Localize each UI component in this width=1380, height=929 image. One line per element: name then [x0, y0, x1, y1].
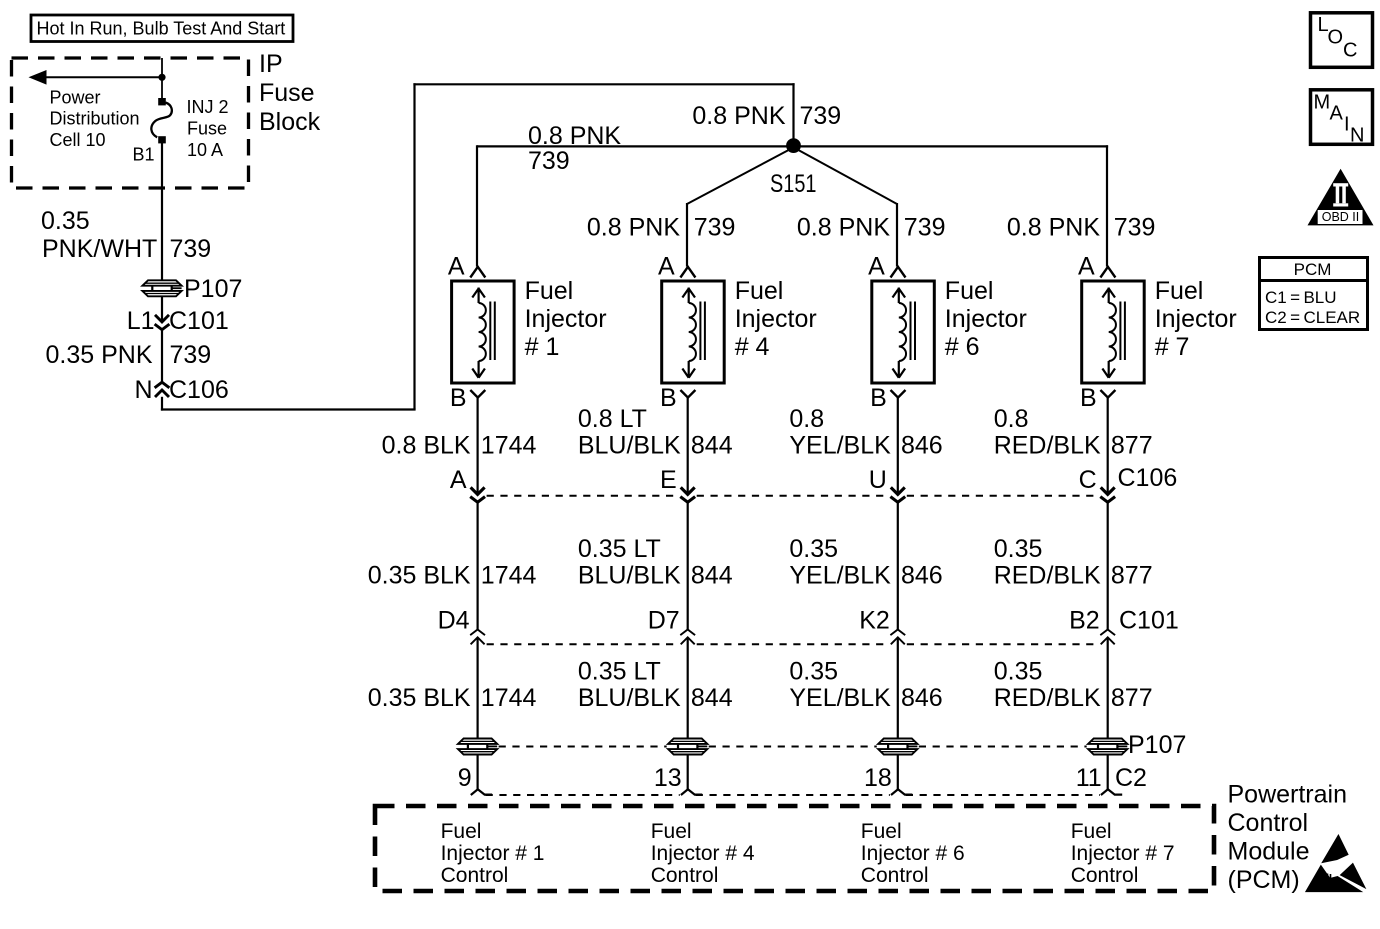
wire P107 to C101 (left): [161, 296, 163, 322]
wire C106 to C101 col 1: [477, 502, 479, 630]
terminal A tent injector 4: [680, 267, 695, 278]
svg-text:Control: Control: [1228, 809, 1309, 837]
svg-text:0.8: 0.8: [789, 405, 824, 433]
svg-text:RED/BLK: RED/BLK: [994, 432, 1101, 460]
wire label 0.35 BLK 1744 (row 2 col 1): [368, 562, 537, 590]
svg-text:YEL/BLK: YEL/BLK: [789, 684, 891, 712]
connector crossing C106 col 1: [470, 487, 485, 502]
connector crossing C106 col 3: [890, 487, 905, 502]
label C106 (row): [1118, 464, 1178, 492]
svg-text:Fuse: Fuse: [187, 118, 227, 138]
wire injector 1 B to C106: [477, 398, 479, 495]
svg-text:739: 739: [170, 341, 212, 369]
pin label 18 (C2): [864, 764, 892, 792]
connector crossing C101 col 1: [470, 630, 485, 645]
svg-text:10 A: 10 A: [187, 140, 223, 160]
label P107 (left wire): [184, 275, 242, 303]
svg-text:B2: B2: [1069, 607, 1100, 635]
svg-text:OBD II: OBD II: [1322, 210, 1360, 224]
label 0.8 PNK 739 (injector 6 branch): [797, 214, 946, 242]
svg-text:M: M: [1314, 92, 1331, 114]
wire S151 horizontal left to injector 1: [477, 145, 794, 147]
label Powertrain Control Module (PCM): [1228, 781, 1348, 895]
LOC icon box: [1311, 13, 1373, 68]
svg-text:# 6: # 6: [945, 333, 980, 361]
wire injector 6 B to C106: [897, 398, 899, 495]
label Fuel Injector # 4 Control: [651, 820, 755, 887]
fuel injector #6 box: [872, 281, 935, 383]
svg-text:# 7: # 7: [1155, 333, 1190, 361]
svg-text:C2: C2: [1115, 764, 1147, 792]
svg-text:Power: Power: [50, 87, 101, 107]
pin label B2 (C101): [1069, 607, 1100, 635]
wire injector 7 B to C106: [1107, 398, 1109, 495]
svg-text:A: A: [658, 253, 675, 281]
label C2 (row): [1115, 764, 1147, 792]
svg-text:Injector: Injector: [735, 305, 817, 333]
connector P107 inline (left wire): [142, 280, 182, 297]
svg-text:BLU/BLK: BLU/BLK: [578, 684, 681, 712]
wire C106 to C101 col 4: [1107, 502, 1109, 630]
wire P107 to C2 col 3: [897, 754, 899, 790]
svg-text:Distribution: Distribution: [50, 109, 140, 129]
pin label A (C106): [450, 466, 467, 494]
svg-text:0.35: 0.35: [789, 535, 838, 563]
svg-text:844: 844: [691, 432, 733, 460]
svg-text:Fuel: Fuel: [1071, 820, 1112, 843]
svg-text:A: A: [448, 253, 465, 281]
svg-text:BLU/BLK: BLU/BLK: [578, 432, 681, 460]
svg-text:Fuel: Fuel: [651, 820, 692, 843]
svg-text:0.35: 0.35: [789, 658, 838, 686]
wire C101 to P107 col 1: [477, 637, 479, 739]
label P107 (row): [1128, 731, 1186, 759]
wire fuse block top stub: [161, 58, 163, 98]
wire between C101 and C106: [161, 329, 163, 382]
svg-text:846: 846: [901, 432, 943, 460]
svg-text:A: A: [1078, 253, 1095, 281]
pin label A injector 4: [658, 253, 675, 281]
connector crossing C106 on left wire: [155, 382, 170, 397]
svg-text:D7: D7: [648, 607, 680, 635]
label 0.8 PNK 739 (injector 7 branch): [1007, 214, 1156, 242]
pin label B injector 7: [1080, 384, 1097, 412]
wire label RED/BLK 877 (row 1 col 4): [994, 405, 1153, 460]
pin label B1: [132, 145, 154, 165]
OBD II triangle icon: [1308, 169, 1374, 226]
label 0.8 PNK 739 (injector 1 branch): [528, 122, 621, 175]
wire label 0.8 BLK 1744 (row 1 col 1): [382, 432, 537, 460]
connector C106 dashed line: [487, 495, 1099, 497]
svg-text:844: 844: [691, 684, 733, 712]
label 0.8 PNK 739 (injector 4 branch): [587, 214, 736, 242]
svg-text:739: 739: [904, 214, 946, 242]
svg-text:# 1: # 1: [525, 333, 560, 361]
svg-text:0.8: 0.8: [994, 405, 1029, 433]
Powertrain Control Module dashed box: [375, 806, 1214, 891]
pin label E (C106): [660, 466, 677, 494]
svg-text:0.35 PNK: 0.35 PNK: [45, 341, 152, 369]
svg-text:B: B: [870, 384, 887, 412]
svg-text:0.8 BLK: 0.8 BLK: [382, 432, 471, 460]
label Power Distribution Cell 10: [50, 87, 140, 150]
wire C106 to C101 col 3: [897, 502, 899, 630]
wire P107 to C2 col 4: [1107, 754, 1109, 790]
wire label BLU/BLK 844 (row 1 col 2): [578, 405, 733, 460]
svg-text:INJ 2: INJ 2: [187, 97, 229, 117]
svg-text:L1: L1: [127, 307, 155, 335]
pin label A injector 7: [1078, 253, 1095, 281]
fuel injector #7 box: [1082, 281, 1145, 383]
pin label D7 (C101): [648, 607, 680, 635]
wire injector 1 A drop: [476, 145, 478, 266]
svg-text:Injector: Injector: [945, 305, 1027, 333]
svg-text:C106: C106: [169, 376, 229, 404]
svg-text:Block: Block: [259, 108, 321, 136]
svg-text:0.35 BLK: 0.35 BLK: [368, 684, 471, 712]
svg-text:877: 877: [1111, 432, 1153, 460]
wire label RED/BLK 877 (row 2 col 4): [994, 535, 1153, 590]
svg-text:Injector # 7: Injector # 7: [1071, 842, 1175, 865]
svg-text:C: C: [1343, 40, 1357, 62]
svg-text:BLU/BLK: BLU/BLK: [578, 562, 681, 590]
svg-text:0.35 BLK: 0.35 BLK: [368, 562, 471, 590]
svg-text:0.8 PNK: 0.8 PNK: [692, 102, 785, 130]
connector P107 inline col 2: [668, 738, 708, 755]
svg-text:0.8 PNK: 0.8 PNK: [587, 214, 680, 242]
svg-text:739: 739: [800, 102, 842, 130]
wire label YEL/BLK 846 (row 2 col 3): [789, 535, 942, 590]
svg-text:A: A: [1330, 103, 1344, 125]
pin label B injector 4: [660, 384, 677, 412]
splice node S151: [786, 138, 801, 153]
fuel injector #4 box: [662, 281, 725, 383]
wire C106 to C101 col 2: [687, 502, 689, 630]
arrow to Power Distribution Cell 10: [29, 70, 163, 85]
svg-text:C2 = CLEAR: C2 = CLEAR: [1265, 308, 1360, 327]
wire S151 diagonal to injector 6: [797, 149, 898, 267]
svg-text:# 4: # 4: [735, 333, 770, 361]
svg-text:PNK/WHT: PNK/WHT: [42, 235, 157, 263]
svg-text:YEL/BLK: YEL/BLK: [789, 562, 891, 590]
svg-text:S151: S151: [770, 170, 817, 198]
terminal B tent injector 6: [891, 390, 906, 398]
svg-text:E: E: [660, 466, 677, 494]
svg-text:Fuel: Fuel: [1155, 277, 1204, 305]
terminal tent at C2 col 2: [681, 789, 702, 795]
svg-text:846: 846: [901, 684, 943, 712]
svg-text:0.35: 0.35: [994, 658, 1043, 686]
svg-text:0.35 LT: 0.35 LT: [578, 535, 661, 563]
terminal tent at C2 col 4: [1101, 789, 1122, 795]
fuel injector #7 coil symbol: [1102, 288, 1125, 378]
svg-text:Fuel: Fuel: [861, 820, 902, 843]
svg-text:O: O: [1328, 27, 1344, 49]
wire label BLU/BLK 844 (row 3 col 2): [578, 658, 733, 713]
svg-text:1744: 1744: [481, 432, 537, 460]
wire drop to S151: [792, 83, 794, 140]
wire top feed horizontal: [413, 83, 794, 85]
connector P107 inline col 1: [458, 738, 498, 755]
label S151: [770, 170, 817, 198]
terminal tent at C2 col 3: [891, 789, 912, 795]
connector crossing C106 col 2: [680, 487, 695, 502]
connector crossing C101 col 2: [680, 630, 695, 645]
svg-text:Fuel: Fuel: [441, 820, 482, 843]
header label box "Hot In Run, Bulb Test And Start": [31, 15, 293, 42]
svg-text:PCM: PCM: [1294, 260, 1332, 279]
label Fuel Injector # 1: [525, 277, 607, 361]
svg-text:1744: 1744: [481, 684, 537, 712]
label 0.35 PNK 739: [45, 341, 211, 369]
svg-text:C1 = BLU: C1 = BLU: [1265, 288, 1337, 307]
ESD sensitivity symbol: [1306, 835, 1365, 892]
terminal A tent injector 6: [891, 267, 906, 278]
label Fuel Injector # 6: [945, 277, 1027, 361]
svg-text:(PCM): (PCM): [1228, 866, 1300, 894]
connector P107 inline col 3: [878, 738, 918, 755]
terminal A tent injector 1: [470, 267, 485, 278]
svg-text:YEL/BLK: YEL/BLK: [789, 432, 891, 460]
svg-text:0.8 LT: 0.8 LT: [578, 405, 647, 433]
wire label YEL/BLK 846 (row 3 col 3): [789, 658, 942, 713]
svg-text:0.35: 0.35: [41, 207, 90, 235]
label Fuel Injector # 6 Control: [861, 820, 965, 887]
wire S151 horizontal right to injector 7: [794, 145, 1109, 147]
svg-text:Injector # 4: Injector # 4: [651, 842, 755, 865]
svg-text:C101: C101: [1119, 607, 1179, 635]
svg-text:Cell 10: Cell 10: [50, 130, 106, 150]
wire C101 to P107 col 4: [1107, 637, 1109, 739]
svg-text:Injector: Injector: [1155, 305, 1237, 333]
svg-text:C101: C101: [169, 307, 229, 335]
svg-text:Injector # 1: Injector # 1: [441, 842, 545, 865]
svg-text:18: 18: [864, 764, 892, 792]
svg-text:Module: Module: [1228, 838, 1310, 866]
pin label A injector 6: [868, 253, 885, 281]
terminal B tent injector 1: [470, 390, 485, 398]
connector crossing C101 on left wire: [155, 315, 170, 330]
svg-text:RED/BLK: RED/BLK: [994, 684, 1101, 712]
pin label N / C106: [134, 376, 228, 404]
fuel injector #1 coil symbol: [472, 288, 495, 378]
svg-text:P107: P107: [184, 275, 242, 303]
svg-text:0.35: 0.35: [994, 535, 1043, 563]
svg-text:U: U: [869, 466, 887, 494]
wire P107 to C2 col 2: [687, 754, 689, 790]
svg-text:C: C: [1079, 466, 1097, 494]
svg-text:739: 739: [694, 214, 736, 242]
connector P107 dashed line: [499, 746, 1087, 748]
svg-text:P107: P107: [1128, 731, 1186, 759]
MAIN icon box: [1311, 90, 1373, 147]
svg-text:877: 877: [1111, 562, 1153, 590]
wire injector 4 B to C106: [687, 398, 689, 495]
svg-text:Control: Control: [651, 864, 719, 887]
label C101 (row): [1119, 607, 1179, 635]
svg-text:A: A: [450, 466, 467, 494]
svg-text:Injector # 6: Injector # 6: [861, 842, 965, 865]
wire label 0.35 BLK 1744 (row 3 col 1): [368, 684, 537, 712]
terminal B tent injector 7: [1100, 390, 1115, 398]
wire C101 to P107 col 3: [897, 637, 899, 739]
fuel injector #4 coil symbol: [682, 288, 705, 378]
pin label A injector 1: [448, 253, 465, 281]
pin label 9 (C2): [458, 764, 472, 792]
svg-text:B: B: [1080, 384, 1097, 412]
terminal B tent injector 4: [680, 390, 695, 398]
svg-text:739: 739: [170, 235, 212, 263]
wire fuse to P107: [161, 141, 163, 281]
svg-text:Injector: Injector: [525, 305, 607, 333]
svg-text:846: 846: [901, 562, 943, 590]
pin label C (C106): [1079, 466, 1097, 494]
svg-text:Fuel: Fuel: [735, 277, 784, 305]
terminal A tent injector 7: [1100, 267, 1115, 278]
pin label D4 (C101): [438, 607, 470, 635]
svg-text:A: A: [868, 253, 885, 281]
pin label B injector 1: [450, 384, 467, 412]
connector P107 inline col 4: [1088, 738, 1128, 755]
svg-text:Fuel: Fuel: [945, 277, 994, 305]
label Fuel Injector # 4: [735, 277, 817, 361]
wire injector 7 A drop: [1106, 145, 1108, 266]
svg-text:I: I: [1344, 114, 1350, 136]
wire L-shape from C106 to feed riser: [161, 397, 416, 411]
wire label BLU/BLK 844 (row 2 col 2): [578, 535, 733, 590]
pin label L1 / C101: [127, 307, 229, 335]
svg-text:13: 13: [654, 764, 682, 792]
svg-text:Control: Control: [1071, 864, 1139, 887]
connector C2 dashed line: [486, 794, 1100, 796]
connector C101 dashed line: [487, 643, 1099, 645]
label INJ 2 Fuse 10 A: [187, 97, 229, 160]
connector crossing C101 col 3: [890, 630, 905, 645]
svg-text:B1: B1: [132, 145, 154, 165]
pin label K2 (C101): [859, 607, 890, 635]
connector crossing C101 col 4: [1100, 630, 1115, 645]
svg-text:0.8 PNK: 0.8 PNK: [528, 122, 621, 150]
wire feed riser x=414.5: [413, 83, 415, 409]
fuel injector #1 box: [452, 281, 514, 383]
pin label 11 (C2): [1076, 764, 1102, 792]
svg-text:844: 844: [691, 562, 733, 590]
svg-text:RED/BLK: RED/BLK: [994, 562, 1101, 590]
label Fuel Injector # 7 Control: [1071, 820, 1175, 887]
svg-text:0.35 LT: 0.35 LT: [578, 658, 661, 686]
label 0.8 PNK 739 (top): [692, 102, 841, 130]
svg-text:11: 11: [1076, 764, 1102, 792]
fuse INJ 2 10A: [151, 98, 171, 143]
svg-text:Fuel: Fuel: [525, 277, 574, 305]
svg-text:Hot In Run, Bulb Test And Star: Hot In Run, Bulb Test And Start: [37, 19, 286, 39]
svg-text:Control: Control: [861, 864, 929, 887]
svg-text:Control: Control: [441, 864, 509, 887]
svg-text:739: 739: [528, 147, 570, 175]
svg-text:C106: C106: [1118, 464, 1178, 492]
svg-text:N: N: [1350, 125, 1364, 147]
PCM connector legend box: [1260, 258, 1368, 330]
svg-text:B: B: [450, 384, 467, 412]
svg-text:1744: 1744: [481, 562, 537, 590]
node junction in fuse block: [158, 74, 165, 81]
wire P107 to C2 col 1: [477, 754, 479, 790]
svg-text:IP: IP: [259, 50, 283, 78]
svg-text:N: N: [134, 376, 152, 404]
svg-text:0.8 PNK: 0.8 PNK: [1007, 214, 1100, 242]
svg-text:K2: K2: [859, 607, 890, 635]
wire S151 diagonal to injector 4: [687, 149, 791, 267]
label Fuel Injector # 7: [1155, 277, 1237, 361]
pin label B injector 6: [870, 384, 887, 412]
terminal tent at C2 col 1: [471, 789, 492, 795]
connector crossing C106 col 4: [1100, 487, 1115, 502]
svg-text:Powertrain: Powertrain: [1228, 781, 1348, 809]
label Fuel Injector # 1 Control: [441, 820, 545, 887]
svg-text:B: B: [660, 384, 677, 412]
fuel injector #6 coil symbol: [893, 288, 916, 378]
svg-text:0.8 PNK: 0.8 PNK: [797, 214, 890, 242]
svg-text:9: 9: [458, 764, 472, 792]
pin label U (C106): [869, 466, 887, 494]
svg-text:D4: D4: [438, 607, 470, 635]
label IP Fuse Block: [259, 50, 321, 136]
svg-text:877: 877: [1111, 684, 1153, 712]
svg-text:Fuse: Fuse: [259, 79, 315, 107]
svg-text:739: 739: [1114, 214, 1156, 242]
wire C101 to P107 col 2: [687, 637, 689, 739]
wire label RED/BLK 877 (row 3 col 4): [994, 658, 1153, 713]
label 0.35 PNK/WHT 739: [41, 207, 211, 263]
wire label YEL/BLK 846 (row 1 col 3): [789, 405, 942, 460]
IP Fuse Block dashed box: [12, 58, 249, 188]
pin label 13 (C2): [654, 764, 682, 792]
